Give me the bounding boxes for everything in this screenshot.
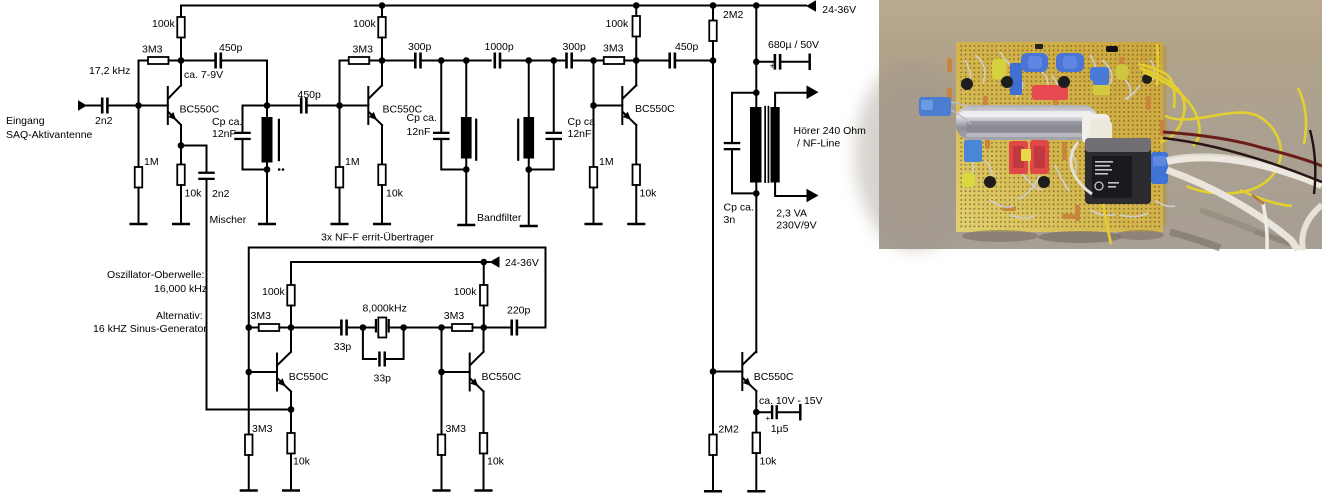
svg-text:Oszillator-Oberwelle:: Oszillator-Oberwelle: bbox=[107, 269, 204, 281]
photo of assembled circuit board bbox=[855, 0, 1322, 250]
node: bandfilter T3 bottom bbox=[525, 166, 532, 173]
svg-text:2n2: 2n2 bbox=[212, 188, 230, 200]
svg-text:BC550C: BC550C bbox=[754, 371, 794, 383]
wire: 3M3 to osc2 collector node bbox=[473, 327, 484, 329]
wire: Cp2 node to C 300p bbox=[554, 60, 566, 62]
wire: rail to 680u node bbox=[755, 6, 757, 93]
svg-text:3M3: 3M3 bbox=[444, 310, 465, 322]
svg-text:Cp ca: Cp ca bbox=[568, 116, 596, 128]
resistor 3M3 osc1 feedback bbox=[249, 327, 259, 329]
svg-text:100k: 100k bbox=[353, 18, 377, 30]
svg-text:2M2: 2M2 bbox=[723, 9, 744, 21]
wire: emitter node to 2n2 bypass bbox=[181, 146, 207, 173]
node: rail stage3 bbox=[633, 2, 640, 9]
svg-text:450p: 450p bbox=[219, 42, 243, 54]
node: crystal right bbox=[400, 324, 407, 331]
capacitor 2n2 input bbox=[101, 98, 104, 114]
wire: osc1 collector to C 33p bbox=[291, 327, 341, 329]
wire: Cp1 node to T2 top node bbox=[441, 60, 466, 62]
svg-text:2M2: 2M2 bbox=[718, 424, 739, 436]
wire: T3 top to Cp2 node bbox=[529, 60, 554, 62]
svg-text:2n2: 2n2 bbox=[95, 115, 113, 127]
resistor 100k stage2 bbox=[381, 6, 383, 18]
node: bandfilter Cp2 top bbox=[550, 57, 557, 64]
node: bandfilter T2 bottom bbox=[463, 166, 470, 173]
svg-text:3M3: 3M3 bbox=[142, 44, 163, 56]
transformer T1 Mischer primary bbox=[266, 106, 268, 118]
svg-text:33p: 33p bbox=[374, 373, 392, 385]
capacitor Cp 12nF bandfilter1 bbox=[440, 61, 442, 133]
svg-text:12nF: 12nF bbox=[212, 128, 236, 140]
ground stage3 1M bbox=[586, 223, 602, 226]
svg-text:Bandfilter: Bandfilter bbox=[477, 212, 522, 224]
resistor 2M2 lower bbox=[712, 372, 714, 435]
node: crystal left bbox=[360, 324, 367, 331]
resistor 3M3 osc2 base-gnd bbox=[438, 435, 446, 456]
svg-text:33p: 33p bbox=[334, 341, 352, 353]
capacitor 450p interstage bbox=[300, 98, 303, 114]
crystal 8,000kHz bbox=[363, 327, 375, 329]
wire: stage3 base column bbox=[593, 61, 595, 106]
svg-text:3M3: 3M3 bbox=[252, 423, 273, 435]
wire: 2n2 down to oscillator (mixer line) bbox=[206, 179, 208, 409]
svg-text:220p: 220p bbox=[507, 305, 531, 317]
arrow output bottom bbox=[807, 189, 819, 203]
input arrow SAQ antenna bbox=[78, 100, 87, 110]
svg-text:+: + bbox=[766, 414, 771, 423]
wire: +V top rail bbox=[181, 5, 806, 7]
wire: osc1 base column bbox=[248, 328, 250, 435]
svg-text:Eingang: Eingang bbox=[6, 115, 45, 127]
wire: base node up to 3M3 stage2 bbox=[340, 61, 349, 106]
svg-text:Cp ca.: Cp ca. bbox=[724, 202, 754, 214]
resistor 3M3 osc2 feedback bbox=[442, 327, 453, 329]
svg-text:Cp ca.: Cp ca. bbox=[407, 112, 437, 124]
svg-text:450p: 450p bbox=[675, 41, 699, 53]
resistor 1M stage2 bbox=[339, 106, 341, 168]
phasing dots bbox=[278, 168, 281, 171]
ground stage2 1M bbox=[332, 223, 348, 226]
wire: transformer bottom to ground bbox=[266, 170, 268, 225]
svg-text:BC550C: BC550C bbox=[289, 371, 329, 383]
ground stage3 10k bbox=[628, 223, 644, 226]
capacitor 680u/50V bbox=[756, 61, 773, 63]
ground bandfilter T2 bbox=[458, 224, 474, 227]
capacitor 1u5 bbox=[756, 411, 770, 413]
node: output emitter bbox=[753, 409, 760, 416]
svg-text:+: + bbox=[770, 61, 775, 71]
node: rail 2M2 bbox=[710, 2, 717, 9]
svg-text:3M3: 3M3 bbox=[603, 43, 624, 55]
ground bandfilter T3 bbox=[521, 225, 537, 228]
svg-text:3x NF-F errit-Übertrager: 3x NF-F errit-Übertrager bbox=[321, 232, 434, 244]
svg-text:17,2 kHz: 17,2 kHz bbox=[89, 65, 130, 77]
wire: T3 bottom to ground bbox=[528, 170, 530, 227]
svg-text:1M: 1M bbox=[599, 156, 614, 168]
wire: stage3 collector to C 450p bbox=[636, 60, 669, 62]
node: stage2 collector bbox=[379, 57, 386, 64]
wire: mixer line to osc1 emitter bbox=[207, 409, 292, 411]
svg-text:12nF: 12nF bbox=[568, 128, 592, 140]
node: mixer transformer top bbox=[264, 102, 271, 109]
transformer T2 bandfilter primary bbox=[465, 61, 467, 118]
resistor 1M stage3 bbox=[593, 106, 595, 168]
svg-text:BC550C: BC550C bbox=[180, 104, 220, 116]
wire: T2 top to C 1000p bbox=[466, 60, 490, 62]
transformer T1 secondary line bbox=[278, 119, 280, 162]
capacitor 1000p bandfilter bbox=[494, 53, 497, 69]
resistor 100k stage1 bbox=[180, 6, 182, 18]
resistor 3M3 stage3 bbox=[594, 60, 604, 62]
transistor Q3 BC550C bbox=[594, 105, 623, 107]
transistor Q6 BC550C output bbox=[713, 371, 742, 373]
ground 10k output bbox=[749, 490, 765, 493]
svg-text:100k: 100k bbox=[606, 18, 630, 30]
arrow +24-36V rail bbox=[806, 0, 816, 11]
capacitor Cp 12nF bandfilter2 bbox=[553, 61, 555, 133]
transistor Q4 BC550C oscillator bbox=[249, 371, 277, 373]
wire: C 2n2 to base node bbox=[109, 105, 139, 107]
svg-text:3M3: 3M3 bbox=[446, 423, 467, 435]
svg-text:10k: 10k bbox=[293, 456, 311, 468]
capacitor Cp 12nF mixer bbox=[243, 106, 268, 133]
node: output transistor base bbox=[710, 368, 717, 375]
svg-text:100k: 100k bbox=[454, 286, 478, 298]
arrow +24-36V oscillator bbox=[490, 256, 500, 267]
resistor 1M stage1 bbox=[138, 106, 140, 168]
svg-text:16,000 kHz: 16,000 kHz bbox=[154, 283, 207, 295]
resistor 3M3 stage1 bbox=[148, 57, 169, 64]
svg-text:300p: 300p bbox=[563, 41, 587, 53]
svg-text:3n: 3n bbox=[724, 214, 736, 226]
transformer T4 output primary bbox=[755, 93, 757, 107]
ground mixer transformer bbox=[259, 223, 275, 226]
node: bandfilter T3 top bbox=[525, 57, 532, 64]
wire: 33p to crystal left node bbox=[348, 327, 363, 329]
wire: 300p to stage3 node bbox=[573, 60, 594, 62]
transistor Q5 BC550C oscillator bbox=[442, 371, 470, 373]
svg-text:2,3 VA: 2,3 VA bbox=[776, 207, 807, 219]
resistor 100k stage3 bbox=[635, 6, 637, 17]
svg-text:1M: 1M bbox=[345, 156, 360, 168]
svg-text:/ NF-Line: / NF-Line bbox=[797, 138, 840, 150]
svg-text:3M3: 3M3 bbox=[251, 310, 272, 322]
wire: 3M3 to osc1 collector node bbox=[279, 327, 291, 329]
wire: crystal right to osc2 base node bbox=[404, 327, 442, 329]
resistor 10k stage1 bbox=[180, 146, 182, 165]
node: osc1 base tap bbox=[245, 369, 252, 376]
wire: oscillator V+ line bbox=[291, 262, 490, 285]
wire: 450p to 2M2 column bbox=[676, 60, 713, 62]
capacitor 450p output coupling bbox=[668, 53, 671, 69]
node: stage1 collector bbox=[178, 57, 185, 64]
node: stage1 emitter bbox=[178, 142, 185, 149]
svg-text:BC550C: BC550C bbox=[635, 103, 675, 115]
wire: 450p to stage2 base node bbox=[308, 105, 340, 107]
svg-text:24-36V: 24-36V bbox=[822, 4, 856, 16]
svg-text:1µ5: 1µ5 bbox=[771, 423, 789, 435]
capacitor 33p parallel loop bbox=[363, 328, 376, 360]
node: stage3 base bbox=[590, 102, 597, 109]
node: stage2 base bbox=[336, 102, 343, 109]
arrow output top bbox=[807, 85, 819, 99]
transformer T4 core lines bbox=[764, 106, 766, 183]
svg-text:10k: 10k bbox=[386, 188, 404, 200]
node: osc2 base tap bbox=[438, 369, 445, 376]
svg-text:BC550C: BC550C bbox=[482, 371, 522, 383]
node: stage1 base bbox=[135, 102, 142, 109]
node: osc2 base column bbox=[438, 324, 445, 331]
svg-text:10k: 10k bbox=[185, 188, 203, 200]
resistor 3M3 osc1 base-gnd bbox=[245, 435, 253, 456]
node: rail 680u column bbox=[753, 2, 760, 9]
resistor 3M3 stage2 bbox=[349, 57, 370, 64]
wire: transformer bottom to output transistor collector bbox=[755, 193, 757, 352]
transformer T3 bandfilter primary bbox=[528, 61, 530, 118]
capacitor 450p stage1 out bbox=[214, 53, 217, 69]
capacitor 33p series bbox=[340, 320, 343, 336]
svg-text:10k: 10k bbox=[640, 188, 658, 200]
node: bandfilter Cp1 top bbox=[438, 57, 445, 64]
svg-text:Alternativ:: Alternativ: bbox=[156, 310, 203, 322]
svg-text:1000p: 1000p bbox=[485, 41, 514, 53]
transformer T3 secondary line bbox=[517, 119, 519, 161]
svg-text:16 kHZ Sinus-Generator: 16 kHZ Sinus-Generator bbox=[93, 323, 207, 335]
wire: osc2 base column bbox=[441, 328, 443, 435]
svg-text:SAQ-Aktivantenne: SAQ-Aktivantenne bbox=[6, 129, 93, 141]
svg-text:100k: 100k bbox=[262, 286, 286, 298]
ground osc2 3M3 bbox=[434, 489, 450, 492]
svg-text:450p: 450p bbox=[298, 89, 322, 101]
wire: secondary top to output arrow bbox=[775, 93, 806, 107]
resistor 10k stage3 bbox=[633, 165, 641, 186]
svg-text:8,000kHz: 8,000kHz bbox=[363, 303, 407, 315]
node: stage3 base top bbox=[590, 57, 597, 64]
wire: oscillator feedback loop top bbox=[249, 248, 546, 328]
svg-text:300p: 300p bbox=[408, 41, 432, 53]
node: rail stage2 bbox=[379, 2, 386, 9]
svg-text:1M: 1M bbox=[144, 156, 159, 168]
wire: secondary bottom to output arrow bbox=[775, 183, 806, 197]
capacitor 300p bandfilter out bbox=[565, 53, 568, 69]
svg-text:3M3: 3M3 bbox=[353, 44, 374, 56]
node: 2M2 / 450p junction bbox=[710, 57, 717, 64]
svg-text:10k: 10k bbox=[487, 456, 505, 468]
node: output transformer top bbox=[753, 89, 760, 96]
node: osc1 emitter bbox=[288, 406, 295, 413]
ground 1u5 (bar) bbox=[799, 405, 802, 419]
ground 680u (bar) bbox=[808, 55, 811, 69]
node: V+ at right 100k bbox=[480, 259, 487, 266]
resistor 100k osc left bbox=[287, 285, 295, 306]
svg-text:Hörer 240 Ohm: Hörer 240 Ohm bbox=[794, 125, 867, 137]
resistor 10k output bbox=[755, 412, 757, 432]
ground osc1 3M3 bbox=[241, 489, 257, 492]
node: 680u tap bbox=[753, 59, 760, 66]
resistor 2M2 upper bbox=[712, 6, 714, 21]
capacitor Cp 3n bbox=[732, 93, 756, 143]
wire: 450p to mixer top node bbox=[222, 61, 267, 106]
wire: mixer node to C 450p bbox=[267, 105, 300, 107]
node: osc1 collector bbox=[288, 324, 295, 331]
node: osc2 collector bbox=[480, 324, 487, 331]
ground osc2 10k bbox=[476, 489, 492, 492]
svg-text:ca. 10V - 15V: ca. 10V - 15V bbox=[759, 395, 823, 407]
wire: 3M3 to stage2 collector node bbox=[369, 60, 382, 62]
ground stage1 10k bbox=[173, 223, 189, 226]
svg-text:Mischer: Mischer bbox=[210, 214, 247, 226]
node: transformer bottom bbox=[753, 190, 760, 197]
resistor 100k osc right bbox=[483, 262, 485, 285]
wire: collector node to C 450p bbox=[181, 60, 215, 62]
svg-text:100k: 100k bbox=[152, 18, 176, 30]
resistor 10k osc1 bbox=[290, 410, 292, 434]
wire: input to C 2n2 bbox=[87, 105, 101, 107]
resistor 10k osc2 bbox=[480, 433, 488, 454]
ground osc1 10k bbox=[283, 489, 299, 492]
capacitor 300p bandfilter in bbox=[414, 53, 417, 69]
svg-text:24-36V: 24-36V bbox=[505, 257, 539, 269]
svg-text:12nF: 12nF bbox=[407, 126, 431, 138]
wire: T2 bottom to ground bbox=[465, 170, 467, 226]
ground stage2 10k bbox=[374, 223, 390, 226]
svg-text:ca. 7-9V: ca. 7-9V bbox=[184, 69, 223, 81]
node: stage3 collector bbox=[633, 57, 640, 64]
capacitor 220p feedback bbox=[484, 327, 511, 329]
svg-text:10k: 10k bbox=[760, 456, 778, 468]
wire: stage2 collector to C 300p bbox=[382, 60, 414, 62]
wire: long drop to output transistor base bbox=[712, 61, 714, 372]
node: bandfilter T2 top bbox=[463, 57, 470, 64]
transformer T4 secondary bbox=[771, 107, 780, 183]
svg-text:680µ / 50V: 680µ / 50V bbox=[768, 39, 819, 51]
wire: 1000p to T3 top node bbox=[501, 60, 529, 62]
wire: base node up to 3M3 bbox=[139, 61, 149, 106]
wire: 3M3 to stage3 collector node bbox=[624, 60, 636, 62]
ground 2M2 lower bbox=[705, 490, 721, 493]
transistor Q2 BC550C bbox=[340, 105, 369, 107]
wire: 300p to Cp node bbox=[421, 60, 441, 62]
transformer T2 secondary line bbox=[475, 119, 477, 161]
wire: 3M3 to collector node bbox=[169, 60, 182, 62]
transistor Q1 BC550C bbox=[139, 105, 168, 107]
svg-text:Cp ca.: Cp ca. bbox=[212, 116, 242, 128]
node: osc rail left end bbox=[245, 324, 252, 331]
ground stage1 1M bbox=[131, 223, 147, 226]
capacitor 2n2 mixer injection bbox=[198, 172, 215, 174]
resistor 10k stage2 bbox=[378, 165, 386, 186]
node: mixer transformer bottom bbox=[264, 166, 271, 173]
svg-text:230V/9V: 230V/9V bbox=[776, 219, 816, 231]
